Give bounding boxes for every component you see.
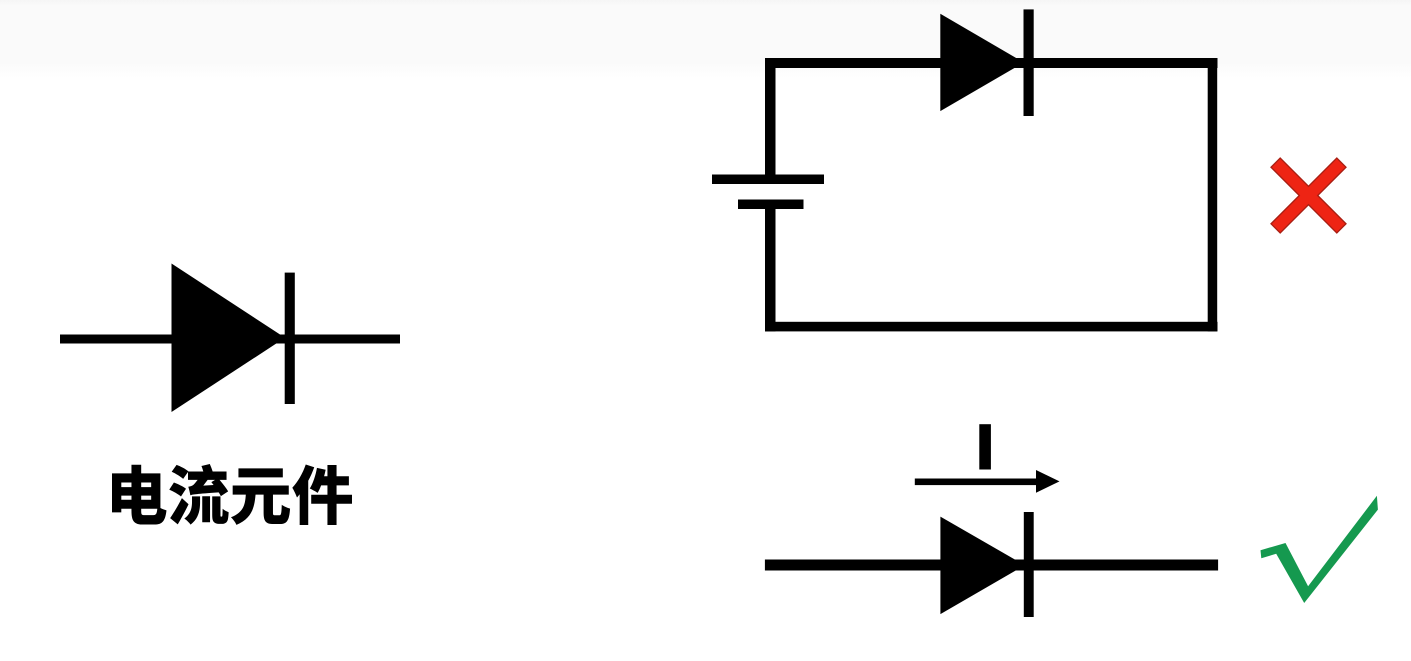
diode D-bottom: wire <box>765 560 1218 571</box>
diode D-top: cathode bar <box>1024 9 1034 116</box>
green check (correct) <box>1261 496 1378 603</box>
red cross (wrong) <box>1271 158 1346 233</box>
current label I <box>979 424 991 469</box>
circuit loop: top wire <box>765 58 1218 68</box>
circuit loop: left wire lower segment <box>765 209 776 331</box>
battery BT1: long plate (+) <box>712 175 824 185</box>
diode D-left: cathode bar <box>285 273 295 404</box>
diode D-left: anode wire <box>60 335 400 344</box>
diode D-bottom: triangle (anode) <box>940 517 1024 615</box>
circuit loop: left wire upper segment <box>765 58 776 175</box>
circuit loop: right wire <box>1208 58 1218 331</box>
current arrow: shaft <box>915 479 1042 486</box>
battery BT1: short plate (-) <box>738 200 804 210</box>
circuit loop: bottom wire <box>765 322 1218 332</box>
current arrow: head <box>1036 470 1060 493</box>
diode D-left: triangle (anode) <box>172 264 286 413</box>
diode D-bottom: cathode bar <box>1024 512 1034 617</box>
diode D-top: triangle (anode) <box>940 14 1024 111</box>
label 电流元件 <box>112 464 352 525</box>
